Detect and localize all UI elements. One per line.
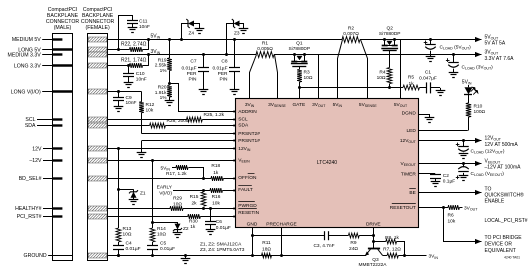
svg-text:10k: 10k [146,107,154,113]
svg-text:R1: R1 [262,41,268,47]
svg-text:BACKPLANE: BACKPLANE [82,13,114,19]
wire GND pin lead [252,228,254,256]
svg-text:4240 TA01: 4240 TA01 [504,256,520,260]
svg-text:10Ω: 10Ω [173,202,182,208]
wire -12V VEE row [108,160,236,162]
svg-text:R9: R9 [350,240,356,246]
svg-text:CONNECTOR: CONNECTOR [81,19,115,25]
male connector body [53,34,73,261]
svg-text:10k: 10k [212,201,220,207]
svg-text:Z4: Z4 [189,31,195,37]
ground DGND [419,114,430,116]
wire gate row [299,87,389,89]
svg-text:Z1: Z1 [140,191,146,197]
svg-text:0.005Ω: 0.005Ω [257,46,273,52]
svg-text:0.01µF: 0.01µF [126,246,141,252]
svg-text:C1: C1 [425,69,431,75]
svg-text:SDA: SDA [238,123,249,129]
svg-text:10k: 10k [448,218,456,224]
svg-text:(FEMALE): (FEMALE) [85,25,109,31]
svg-text:BE: BE [409,190,415,196]
svg-text:R20: R20 [158,85,167,91]
svg-text:C11: C11 [139,19,148,25]
wire ADDRIN tap [170,84,236,112]
svg-text:0.01µF: 0.01µF [212,66,227,72]
svg-text:10nF: 10nF [126,100,137,106]
resistor R6 [419,207,449,209]
arrow BE to quickswitch [419,192,482,194]
svg-text:R25, 1.2k: R25, 1.2k [204,112,225,118]
svg-text:LONG V(I/O): LONG V(I/O) [11,89,41,95]
svg-text:TO PCI BRIDGE: TO PCI BRIDGE [485,235,523,241]
svg-text:Q1: Q1 [296,41,303,47]
svg-text:R16: R16 [212,194,221,200]
wire 5V rail right section [360,39,482,41]
svg-text:Q3: Q3 [372,257,379,263]
svg-text:Z2: Z2 [183,226,189,232]
svg-text:C6: C6 [216,219,222,225]
svg-text:QUICKSWITCH®: QUICKSWITCH® [485,192,525,199]
wire 5VOUT pin leg [400,39,402,99]
wire HEALTHY row with resistor R29 [108,208,170,210]
svg-text:R19: R19 [158,58,167,64]
female connector contact bands [88,37,107,42]
svg-text:2k: 2k [191,201,197,207]
svg-text:PRECHARGE: PRECHARGE [266,222,296,228]
svg-text:5V AT 5A: 5V AT 5A [485,41,506,47]
female connector body [88,34,108,261]
resistor R9 [329,235,349,237]
svg-text:EQUIVALENT: EQUIVALENT [485,248,516,254]
svg-text:R11: R11 [262,240,271,246]
zener Z1 [117,188,120,191]
wire PRECHARGE lead [281,228,283,256]
resistor R11 [262,253,272,258]
svg-text:R30: R30 [189,218,198,224]
svg-text:1k: 1k [408,81,414,87]
resistor R15 [201,192,206,206]
resistor R20 [168,82,171,85]
svg-text:R2: R2 [348,26,354,32]
svg-text:ENABLE: ENABLE [485,199,505,205]
svg-text:0.007Ω: 0.007Ω [343,31,359,37]
svg-text:C10: C10 [136,71,145,77]
wire PRSNT2 row [142,133,236,135]
svg-text:0.01µF: 0.01µF [160,246,175,252]
arrow 3VOUT [453,54,481,56]
wire 5V_IN rail [108,39,342,41]
svg-text:GROUND: GROUND [24,253,47,259]
svg-text:10nF: 10nF [136,76,147,82]
resistor R14 and capacitor C5 [152,160,154,228]
svg-text:R10: R10 [474,103,483,109]
svg-text:R22, 2.74Ω: R22, 2.74Ω [121,41,147,47]
svg-text:Si7880DP: Si7880DP [379,31,401,37]
svg-text:C3, 4.7nF: C3, 4.7nF [313,243,334,249]
svg-text:DGND: DGND [402,111,417,117]
svg-text:R4: R4 [379,70,385,76]
resistor R21 [108,65,130,67]
svg-text:R21, 1.74Ω: R21, 1.74Ω [121,58,147,64]
svg-text:Q2: Q2 [386,26,393,32]
svg-text:PER: PER [218,71,228,77]
svg-text:0.047µF: 0.047µF [419,76,437,82]
wire V(I/O) row [108,91,142,93]
arrow 5VOUT [475,37,482,42]
svg-text:LED: LED [406,128,416,134]
capacitor CLOAD 12VOUT [462,139,465,142]
svg-text:1%: 1% [160,95,168,101]
svg-text:(MALE): (MALE) [54,25,72,31]
svg-text:Z1, Z2: SMAJ12CA: Z1, Z2: SMAJ12CA [200,241,242,247]
svg-text:100Ω: 100Ω [474,109,486,115]
svg-text:LOCAL_PCI_RST#: LOCAL_PCI_RST# [485,218,528,224]
svg-text:GATE: GATE [292,102,305,108]
resistor R7 [383,255,388,257]
svg-text:V(I/O): V(I/O) [159,191,172,197]
wire 3V rail right section [274,54,453,56]
svg-text:R28, 200Ω: R28, 200Ω [167,118,190,124]
zener Z2 [151,221,154,224]
svg-text:R6: R6 [448,212,454,218]
transistor Q3 [368,248,380,250]
ground symbol on ground row [184,254,187,257]
svg-text:TIMER: TIMER [401,172,416,178]
svg-text:DEVICE OR: DEVICE OR [485,242,513,248]
svg-text:–12V AT 100mA: –12V AT 100mA [485,165,522,171]
svg-text:LTC4240: LTC4240 [317,160,337,166]
wire SCL row with resistor R25 [108,119,187,121]
svg-text:RESETIN: RESETIN [238,210,259,216]
MOSFET Q2 [383,38,386,41]
svg-text:BD_SEL#: BD_SEL# [19,176,42,182]
svg-text:HEALTHY#: HEALTHY# [15,206,42,212]
capacitor C7 [202,53,205,56]
wire BD_SEL row with resistor R18 [108,178,211,180]
svg-text:10Ω: 10Ω [157,232,166,238]
zener Z4 [180,38,183,41]
svg-text:2.55k: 2.55k [155,63,167,69]
svg-text:0.1µF: 0.1µF [443,179,455,185]
svg-text:–12V: –12V [29,158,42,164]
resistor R19 [168,38,171,41]
svg-text:R3: R3 [304,70,310,76]
svg-text:R18: R18 [211,163,220,169]
sense resistor R2 [342,37,360,43]
svg-text:CompactPCI: CompactPCI [48,7,77,13]
capacitor C2 on TIMER [419,173,436,175]
wire FAULT row with resistor R16 [173,190,210,192]
svg-text:R5: R5 [408,75,414,81]
IC left pin stubs [233,111,235,113]
capacitor C11 [119,16,133,50]
resistor R4 [387,68,392,84]
capacitor CLOAD VEEOUT [462,162,465,165]
svg-text:CompactPCI: CompactPCI [83,7,112,13]
wire GROUND row [108,255,366,257]
svg-text:C8: C8 [221,59,227,65]
svg-text:10Ω: 10Ω [123,232,132,238]
resistor R12 [141,92,143,102]
svg-text:C9: C9 [126,95,132,101]
svg-text:0.01µF: 0.01µF [216,225,231,231]
svg-text:MEDIUM 3.3V: MEDIUM 3.3V [8,53,42,59]
wire DRIVE lead to Q3 base [373,228,375,249]
svg-text:24Ω: 24Ω [349,246,358,252]
svg-text:PIN: PIN [189,77,198,83]
svg-text:1k: 1k [190,224,196,230]
svg-text:Si7880DP: Si7880DP [288,46,310,52]
svg-text:1k: 1k [213,170,219,176]
wire 12VOUT row [419,140,482,142]
svg-text:1.91k: 1.91k [155,90,167,96]
svg-text:18Ω: 18Ω [262,246,271,252]
svg-text:10nF: 10nF [139,24,150,30]
svg-text:OFF/ON: OFF/ON [238,175,257,181]
capacitor C1 [426,82,428,93]
svg-text:PIN: PIN [220,77,229,83]
svg-text:DRIVE: DRIVE [366,222,381,228]
MOSFET Q1 [293,53,296,56]
resistor R13 and capacitor C4 [118,149,120,229]
resistor R3 [297,69,302,82]
svg-text:EARLY: EARLY [157,185,173,191]
svg-text:Z3: Z3 [234,31,240,37]
svg-text:GND: GND [247,222,258,228]
svg-text:R14: R14 [157,226,166,232]
capacitor C3 [252,235,324,237]
capacitor CLOAD 3VOUT [452,53,455,56]
svg-text:12V: 12V [32,146,42,152]
svg-text:C4: C4 [126,241,132,247]
svg-text:R13: R13 [123,226,132,232]
wire VEEOUT row [419,163,482,165]
svg-text:MMBT2222A: MMBT2222A [359,262,388,268]
wire to 3VIN net label [405,255,427,257]
wire PCI_RST row with resistor R30 [108,216,188,218]
IC U1 LTC4240 [236,99,419,228]
svg-text:RESETOUT: RESETOUT [390,205,416,211]
svg-text:1%: 1% [160,68,168,74]
svg-text:C7: C7 [190,59,196,65]
resistor R22 [108,49,130,51]
wire RESETOUT to PCI bridge arrow [444,208,482,242]
capacitor C8 [233,38,236,41]
capacitor C9 [117,90,120,93]
svg-text:PWRGD: PWRGD [238,203,257,209]
svg-text:FAULT: FAULT [238,187,253,193]
svg-text:R12: R12 [146,102,155,108]
svg-text:MEDIUM 5V: MEDIUM 5V [12,37,41,43]
capacitor C10 [128,66,130,74]
svg-text:R7, 12Ω: R7, 12Ω [383,247,401,253]
wire 12V row [108,148,236,150]
wire 3VOUT pin leg [318,55,320,99]
svg-text:SCL: SCL [238,116,248,122]
svg-text:PER: PER [187,71,197,77]
svg-text:R29: R29 [173,195,182,201]
svg-text:R15: R15 [190,194,199,200]
svg-text:CONNECTOR: CONNECTOR [46,19,80,25]
svg-text:C2: C2 [443,173,449,179]
svg-text:3.3V AT 7.6A: 3.3V AT 7.6A [485,56,515,62]
svg-text:0.01µF: 0.01µF [181,66,196,72]
svg-text:R17, 1.2k: R17, 1.2k [166,171,187,177]
svg-text:Z3, Z4: 1PMT5.0AT3: Z3, Z4: 1PMT5.0AT3 [200,247,245,253]
sense resistor R1 [256,52,274,58]
svg-text:BACKPLANE: BACKPLANE [47,13,79,19]
svg-text:C5: C5 [160,241,166,247]
wire PRSNT1 row to ground [142,140,236,142]
svg-text:10Ω: 10Ω [377,75,386,81]
svg-text:LONG 3.3V: LONG 3.3V [14,63,41,69]
wire LED pin row [419,130,468,132]
capacitor CLOAD 5VOUT [429,38,432,41]
svg-text:SCL: SCL [25,117,35,123]
svg-text:PRSNT2#: PRSNT2# [238,131,260,137]
wire SDA row with resistor R28 [108,125,150,127]
wire 3V_IN rail [108,54,256,56]
svg-text:ADDRIN: ADDRIN [238,109,257,115]
capacitor C6 [210,208,212,221]
svg-text:R8, 1k: R8, 1k [385,235,399,241]
svg-text:PCI_RST#: PCI_RST# [17,214,42,220]
svg-text:PRSNT1#: PRSNT1# [238,138,260,144]
resistor R5 [390,87,403,89]
zener Z3 [225,53,228,56]
svg-text:SDA: SDA [25,123,36,129]
resistor R8 [373,241,386,243]
svg-text:12V AT 500mA: 12V AT 500mA [485,142,519,148]
svg-text:10Ω: 10Ω [304,75,313,81]
